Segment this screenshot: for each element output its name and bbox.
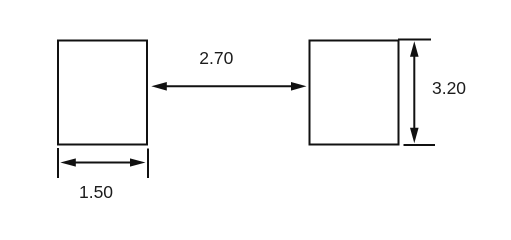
extension line bottom-left of left square — [57, 148, 59, 178]
svg-text:3.20: 3.20 — [432, 78, 466, 98]
dimension 2.70 arrow — [151, 82, 306, 91]
extension line bottom right — [404, 144, 436, 146]
right square — [310, 41, 399, 145]
extension line top right — [398, 39, 431, 41]
svg-text:2.70: 2.70 — [199, 48, 233, 68]
left square — [58, 41, 147, 145]
dimension 3.20 arrow — [410, 41, 419, 143]
extension line bottom-right of left square — [147, 149, 149, 179]
svg-text:1.50: 1.50 — [79, 182, 113, 202]
dimension 1.50 arrow — [60, 158, 145, 166]
